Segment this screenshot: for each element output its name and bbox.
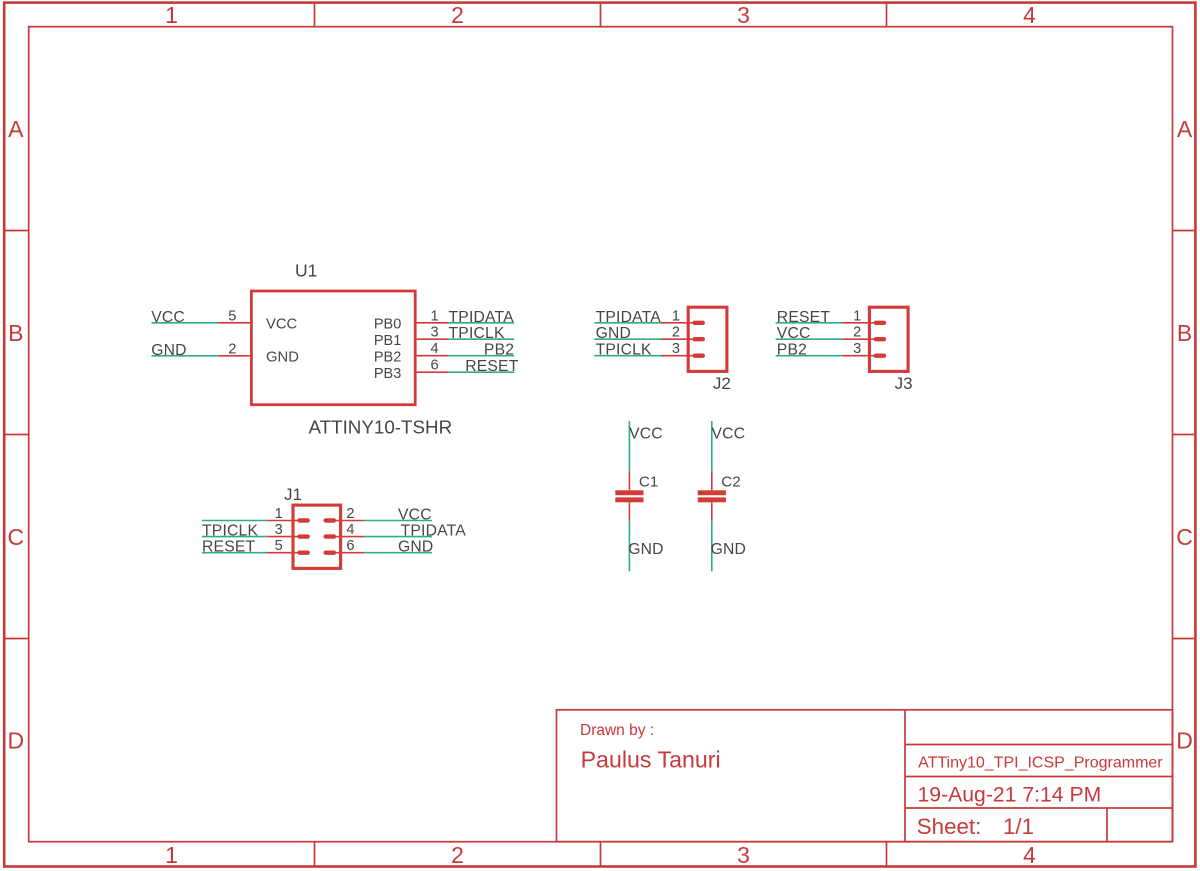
svg-text:GND: GND (596, 325, 631, 342)
svg-text:A: A (1177, 116, 1193, 142)
svg-text:ATTINY10-TSHR: ATTINY10-TSHR (309, 417, 453, 438)
svg-text:B: B (1177, 320, 1192, 346)
svg-text:Paulus Tanuri: Paulus Tanuri (581, 746, 721, 772)
wire net GND below C2 (711, 521, 713, 572)
title block row line 3 (905, 807, 1173, 809)
svg-text:Drawn by :: Drawn by : (580, 722, 654, 739)
svg-text:4: 4 (346, 522, 354, 538)
frame row tick left 3 (4, 638, 29, 640)
svg-text:D: D (1176, 728, 1193, 754)
wire at U1 pin 6 (448, 371, 514, 373)
svg-text:2: 2 (853, 325, 861, 341)
svg-text:5: 5 (228, 308, 236, 324)
wire at J1 pin 6 (364, 552, 432, 554)
svg-text:RESET: RESET (777, 309, 831, 326)
svg-text:J1: J1 (284, 485, 302, 504)
svg-text:GND: GND (398, 539, 433, 556)
J1 pin 6 stub (342, 552, 364, 554)
svg-text:PB2: PB2 (374, 349, 401, 365)
frame column tick bottom 3 (886, 842, 888, 867)
J2 pin 3 pad lead (687, 355, 695, 357)
wire at J1 pin 4 (364, 536, 432, 538)
frame row tick right 1 (1173, 230, 1196, 232)
wire net TPICLK to J2 pin 3 (594, 355, 661, 357)
J1 pin 2 pad (324, 518, 337, 522)
svg-text:1: 1 (165, 2, 178, 28)
wire at J1 pin 5 (202, 552, 267, 554)
svg-text:PB0: PB0 (374, 316, 401, 332)
frame row tick right 2 (1173, 434, 1196, 436)
frame row tick right 3 (1173, 638, 1196, 640)
svg-text:PB1: PB1 (374, 333, 401, 349)
wire net GND below C1 (628, 521, 630, 572)
title block row line 2 (905, 776, 1173, 778)
svg-text:1: 1 (672, 308, 680, 324)
C2 top lead (711, 472, 713, 491)
svg-text:A: A (8, 116, 24, 142)
connector J2 body (688, 307, 727, 371)
frame column tick top 1 (314, 3, 316, 27)
capacitor C1 top plate (615, 490, 643, 495)
svg-text:TPICLK: TPICLK (202, 523, 258, 540)
svg-text:U1: U1 (295, 261, 317, 281)
svg-text:6: 6 (430, 358, 438, 374)
J2 pin 1 pad (692, 321, 705, 325)
wire at U1 pin 3 (448, 338, 514, 340)
svg-text:C: C (1176, 524, 1193, 550)
J2 pin 2 pad lead (687, 338, 695, 340)
svg-text:4: 4 (1023, 842, 1036, 868)
svg-text:J2: J2 (713, 374, 731, 393)
svg-text:PB2: PB2 (777, 342, 807, 359)
C2 bottom lead (711, 502, 713, 520)
svg-text:VCC: VCC (777, 325, 811, 342)
svg-text:PB2: PB2 (484, 342, 514, 359)
wire at U1 pin 4 (448, 355, 514, 357)
J2 pin 3 stub (661, 355, 687, 357)
wire net TPIDATA to J2 pin 1 (594, 322, 661, 324)
J1 pin 1 pad lead (292, 520, 300, 522)
J2 pin 1 stub (661, 322, 687, 324)
svg-text:RESET: RESET (202, 539, 256, 556)
svg-text:2: 2 (451, 2, 464, 28)
svg-text:2: 2 (346, 506, 354, 522)
title block sheet cell divider (1106, 808, 1108, 842)
wire net VCC above C2 (711, 421, 713, 472)
svg-text:Sheet:: Sheet: (917, 814, 981, 839)
svg-text:VCC: VCC (266, 317, 298, 333)
wire net VCC above C1 (628, 421, 630, 472)
J1 pin 6 pad (324, 551, 337, 555)
svg-text:GND: GND (266, 350, 299, 366)
J3 pin 1 pad (874, 321, 887, 325)
J1 pin 4 pad (324, 534, 337, 538)
svg-text:2: 2 (228, 341, 236, 357)
J3 pin 2 pad lead (868, 338, 876, 340)
frame column tick bottom 1 (314, 842, 316, 867)
J2 pin 3 pad (692, 354, 705, 358)
wire net GND to J2 pin 2 (594, 338, 661, 340)
svg-text:1: 1 (430, 308, 438, 324)
J3 pin 2 stub (842, 338, 868, 340)
J1 pin 5 pad (297, 551, 310, 555)
title block outline (557, 710, 1173, 842)
svg-text:PB3: PB3 (374, 366, 401, 382)
J3 pin 3 stub (842, 355, 868, 357)
J1 pin 3 pad (297, 534, 310, 538)
J1 pin 3 pad lead (292, 536, 300, 538)
connector J3 body (869, 307, 908, 371)
wire net VCC to J3 pin 2 (776, 338, 843, 340)
svg-text:3: 3 (853, 341, 861, 357)
svg-text:3: 3 (737, 2, 750, 28)
svg-text:VCC: VCC (629, 426, 663, 443)
wire at J1 pin 2 (364, 520, 432, 522)
wire at U1 pin 1 (448, 322, 514, 324)
svg-text:GND: GND (151, 342, 186, 359)
svg-text:4: 4 (430, 341, 438, 357)
U1 pin 6 stub (PB3) (417, 371, 448, 373)
svg-text:1: 1 (853, 308, 861, 324)
connector J1 body (293, 505, 341, 568)
wire net PB2 to J3 pin 3 (776, 355, 843, 357)
wire net VCC to U1 pin 5 (152, 322, 219, 324)
svg-text:TPIDATA: TPIDATA (449, 309, 515, 326)
svg-text:2: 2 (451, 842, 464, 868)
svg-text:ATTiny10_TPI_ICSP_Programmer: ATTiny10_TPI_ICSP_Programmer (918, 755, 1163, 772)
svg-text:3: 3 (430, 325, 438, 341)
svg-text:C1: C1 (639, 473, 658, 490)
U1 pin 2 stub (218, 355, 250, 357)
J1 pin 1 stub (267, 520, 292, 522)
capacitor C2 top plate (698, 490, 726, 495)
svg-text:2: 2 (672, 325, 680, 341)
C1 bottom lead (628, 502, 630, 520)
svg-text:GND: GND (628, 541, 663, 558)
title block row line 1 (905, 744, 1173, 746)
J2 pin 1 pad lead (687, 322, 695, 324)
svg-text:VCC: VCC (151, 309, 185, 326)
J2 pin 2 pad (692, 337, 705, 341)
svg-text:1/1: 1/1 (1003, 814, 1034, 839)
svg-text:RESET: RESET (465, 358, 519, 375)
wire at J1 pin 3 (202, 536, 267, 538)
wire at J1 pin 1 (202, 520, 267, 522)
svg-text:19-Aug-21 7:14 PM: 19-Aug-21 7:14 PM (918, 783, 1102, 806)
J1 pin 6 pad lead (334, 552, 342, 554)
svg-text:TPIDATA: TPIDATA (401, 523, 467, 540)
J2 pin 2 stub (661, 338, 687, 340)
J1 pin 4 pad lead (334, 536, 342, 538)
C1 top lead (628, 472, 630, 491)
J1 pin 1 pad (297, 518, 310, 522)
J3 pin 2 pad (874, 337, 887, 341)
svg-text:1: 1 (165, 842, 178, 868)
svg-text:VCC: VCC (712, 426, 746, 443)
svg-text:4: 4 (1023, 2, 1036, 28)
svg-text:TPIDATA: TPIDATA (596, 309, 662, 326)
J1 pin 2 stub (342, 520, 364, 522)
svg-text:B: B (8, 320, 23, 346)
J3 pin 1 pad lead (868, 322, 876, 324)
U1 pin 5 stub (218, 322, 250, 324)
J3 pin 3 pad lead (868, 355, 876, 357)
frame column tick top 3 (886, 3, 888, 27)
J1 pin 5 stub (267, 552, 292, 554)
wire net RESET to J3 pin 1 (776, 322, 843, 324)
J3 pin 3 pad (874, 354, 887, 358)
svg-text:3: 3 (275, 522, 283, 538)
svg-text:3: 3 (672, 341, 680, 357)
svg-text:C: C (7, 524, 24, 550)
svg-text:5: 5 (275, 538, 283, 554)
svg-text:C2: C2 (721, 473, 740, 490)
U1 pin 3 stub (PB1) (417, 338, 448, 340)
wire net GND to U1 pin 2 (152, 355, 219, 357)
title block vertical divider (904, 710, 906, 842)
frame row tick left 1 (4, 230, 29, 232)
svg-text:TPICLK: TPICLK (449, 325, 505, 342)
J1 pin 3 stub (267, 536, 292, 538)
svg-text:1: 1 (275, 506, 283, 522)
J1 pin 2 pad lead (334, 520, 342, 522)
svg-text:6: 6 (346, 538, 354, 554)
frame row tick left 2 (4, 434, 29, 436)
svg-text:D: D (7, 728, 24, 754)
svg-text:GND: GND (711, 541, 746, 558)
svg-text:TPICLK: TPICLK (596, 342, 652, 359)
J3 pin 1 stub (842, 322, 868, 324)
frame column tick top 2 (600, 3, 602, 27)
J1 pin 5 pad lead (292, 552, 300, 554)
ic U1 body (251, 291, 415, 405)
capacitor C2 bottom plate (698, 497, 726, 502)
U1 pin 1 stub (PB0) (417, 322, 448, 324)
svg-text:VCC: VCC (398, 507, 432, 524)
J1 pin 4 stub (342, 536, 364, 538)
svg-text:3: 3 (737, 842, 750, 868)
capacitor C1 bottom plate (615, 497, 643, 502)
U1 pin 4 stub (PB2) (417, 355, 448, 357)
svg-text:J3: J3 (895, 374, 913, 393)
frame column tick bottom 2 (600, 842, 602, 867)
